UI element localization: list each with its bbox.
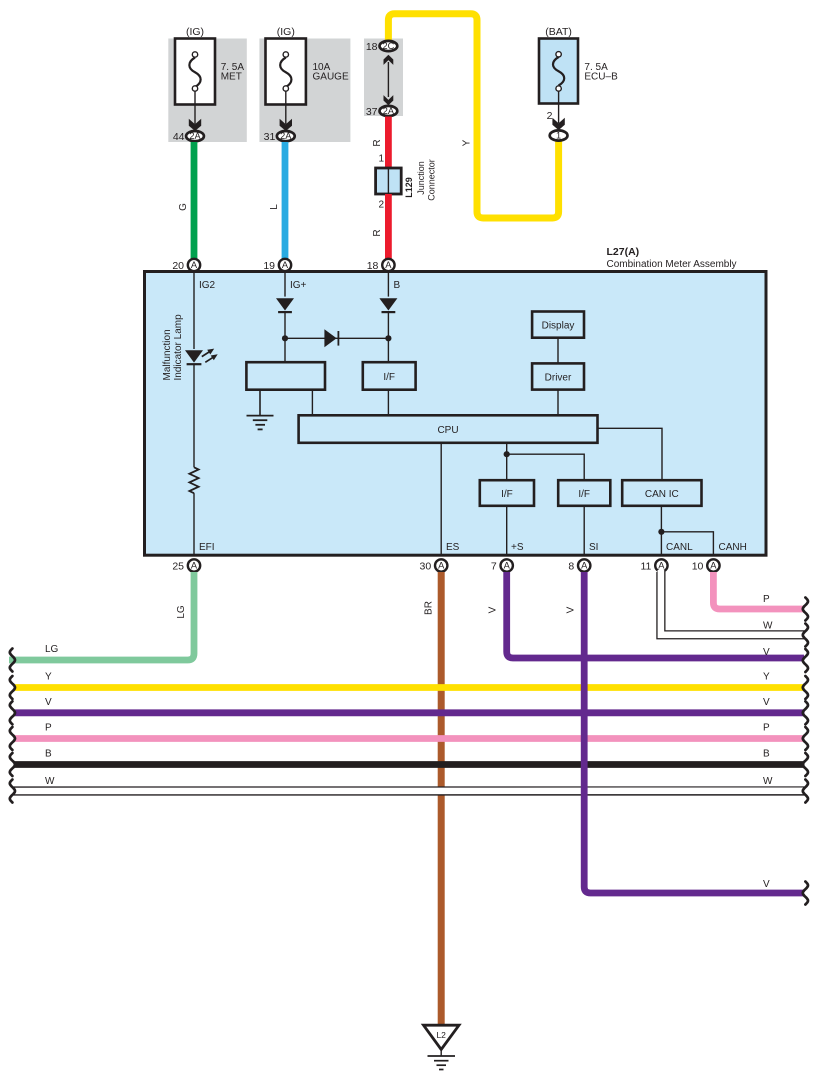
- break symbol left Y: [10, 676, 15, 699]
- svg-text:IG+: IG+: [290, 280, 307, 291]
- wire LED to resistor: [193, 364, 195, 467]
- svg-text:P: P: [763, 594, 770, 605]
- double arrow between 2C and 2A: [384, 55, 394, 106]
- pin 25 connector A bottom: [188, 559, 200, 571]
- svg-text:BR: BR: [424, 601, 435, 615]
- resistor: [189, 467, 198, 493]
- svg-text:18: 18: [367, 260, 379, 272]
- CPU box: [299, 415, 598, 443]
- svg-text:IG2: IG2: [199, 280, 216, 291]
- svg-text:25: 25: [172, 560, 184, 572]
- svg-text:A: A: [191, 561, 198, 571]
- pin 7 connector A bottom: [501, 559, 513, 571]
- svg-text:A: A: [658, 561, 665, 571]
- svg-text:18: 18: [366, 41, 378, 53]
- svg-text:L2: L2: [436, 1030, 446, 1040]
- I/F box (B input): [363, 362, 416, 390]
- svg-text:Y: Y: [763, 672, 770, 683]
- ground (internal): [247, 416, 274, 430]
- svg-text:MET: MET: [221, 72, 242, 83]
- svg-text:L: L: [269, 204, 280, 210]
- break symbol right V: [803, 649, 808, 672]
- svg-text:LG: LG: [45, 644, 59, 655]
- pin 19 connector A top: [279, 259, 291, 271]
- svg-text:V: V: [763, 879, 770, 890]
- break symbol right P: [803, 727, 808, 750]
- bus wire P pink: [14, 735, 805, 742]
- combination meter assembly box L27(A): [145, 272, 767, 556]
- junction dot B: [385, 335, 391, 341]
- wire Display to Driver: [557, 338, 559, 364]
- wire F2 to connector: [285, 91, 287, 124]
- svg-text:I/F: I/F: [383, 372, 395, 383]
- Display box: [532, 312, 584, 338]
- wire W white from pin 11 CANL: [661, 570, 805, 635]
- wire CAN IC to CANL: [660, 506, 662, 554]
- wire box to CPU: [311, 390, 313, 416]
- pin 30 connector A bottom: [435, 559, 447, 571]
- svg-text:CPU: CPU: [437, 425, 458, 436]
- svg-text:ECU–B: ECU–B: [584, 72, 618, 83]
- svg-text:R: R: [372, 139, 383, 146]
- svg-text:EFI: EFI: [199, 542, 215, 553]
- wire LG from pin 25: [9, 572, 194, 660]
- svg-text:SI: SI: [589, 542, 598, 553]
- svg-text:7: 7: [491, 560, 497, 572]
- bus wire B black: [14, 761, 805, 768]
- svg-text:V: V: [566, 606, 577, 613]
- svg-text:20: 20: [172, 260, 184, 272]
- break symbol right W: [803, 780, 808, 803]
- svg-text:L129: L129: [404, 177, 414, 198]
- svg-text:2A: 2A: [189, 131, 201, 141]
- svg-text:V: V: [45, 697, 52, 708]
- LED malfunction indicator lamp: [185, 349, 218, 365]
- wire I/F2 to SI pin: [583, 506, 585, 554]
- svg-text:B: B: [394, 280, 401, 291]
- svg-text:V: V: [763, 647, 770, 658]
- value label 10A GAUGE: [313, 62, 349, 83]
- svg-text:Junction: Junction: [416, 161, 426, 195]
- wire CANL to CANH: [661, 532, 713, 554]
- label Malfunction Indicator Lamp: [162, 314, 184, 381]
- wire box to ground: [259, 390, 261, 416]
- svg-text:2A: 2A: [383, 106, 395, 116]
- value label 7.5A ECU-B: [584, 62, 618, 83]
- diode D3 (crossover): [324, 329, 338, 347]
- regulator box (unlabeled): [246, 362, 325, 390]
- break symbol left V: [10, 701, 15, 724]
- wire yellow Y from 2C to junction 1: [388, 14, 558, 218]
- wire resistor to pin EFI: [193, 493, 195, 554]
- arrow into connector 2A pin 44: [189, 119, 201, 131]
- svg-text:A: A: [581, 561, 588, 571]
- fuse block F1 background: [168, 39, 247, 143]
- bus wire W white: [14, 786, 805, 795]
- wire F1 to connector: [194, 91, 196, 124]
- connector oval 2A pin 37: [380, 106, 398, 116]
- break symbol right W: [803, 624, 808, 647]
- svg-text:P: P: [763, 723, 770, 734]
- pin 8 connector A bottom: [578, 559, 590, 571]
- svg-text:A: A: [710, 561, 717, 571]
- svg-text:W: W: [763, 776, 773, 787]
- wire CPU to ES: [440, 443, 442, 554]
- svg-text:V: V: [763, 697, 770, 708]
- value label 7.5A MET: [221, 62, 245, 83]
- svg-text:Driver: Driver: [545, 373, 572, 384]
- svg-text:ES: ES: [446, 542, 460, 553]
- svg-text:2: 2: [547, 110, 553, 122]
- break symbol right B: [803, 753, 808, 776]
- arrow into connector 2A pin 31: [280, 119, 292, 131]
- wire F3 to connector 1: [558, 91, 560, 123]
- svg-text:10: 10: [692, 560, 704, 572]
- fuse F2 10A GAUGE: [266, 39, 306, 105]
- wire G green pin44 to pin20: [191, 142, 198, 259]
- svg-text:(IG): (IG): [277, 26, 295, 38]
- svg-text:LG: LG: [176, 605, 187, 619]
- svg-text:2A: 2A: [280, 131, 292, 141]
- fuse block F2 background: [259, 39, 350, 143]
- wire P pink from pin 10 CANH: [713, 572, 804, 609]
- svg-text:I/F: I/F: [578, 489, 590, 500]
- Driver box: [532, 363, 584, 389]
- wire B I/F to CPU: [387, 390, 389, 416]
- svg-text:B: B: [45, 749, 52, 760]
- break symbol right P: [803, 598, 808, 621]
- svg-text:+S: +S: [511, 542, 524, 553]
- svg-text:44: 44: [173, 131, 185, 143]
- wire CPU to I/F1: [506, 443, 508, 480]
- svg-text:Display: Display: [542, 321, 575, 332]
- wire cross diode horizontal: [285, 337, 388, 339]
- wire D1 to node: [284, 312, 286, 362]
- svg-text:CANH: CANH: [719, 542, 747, 553]
- svg-text:A: A: [191, 260, 198, 270]
- svg-text:A: A: [438, 561, 445, 571]
- connector block 2C-2A background: [364, 39, 403, 117]
- svg-text:L27(A): L27(A): [607, 246, 640, 258]
- svg-text:G: G: [178, 203, 189, 211]
- pin 11 connector A bottom: [655, 559, 667, 571]
- svg-text:Y: Y: [462, 139, 473, 146]
- break symbol right V: [803, 882, 808, 905]
- label L27(A) Combination Meter Assembly: [607, 246, 737, 270]
- connector oval 2C pin 18: [380, 41, 398, 51]
- wire IG+ vertical: [284, 273, 286, 297]
- wire Driver to CPU: [557, 390, 559, 416]
- ground L2: [424, 1025, 460, 1069]
- svg-text:P: P: [45, 723, 52, 734]
- wire R red lower segment: [385, 194, 392, 259]
- svg-text:A: A: [282, 260, 289, 270]
- wire BR brown from pin 30: [438, 572, 445, 1025]
- connector oval 2A pin 44: [186, 131, 204, 141]
- svg-text:(IG): (IG): [186, 26, 204, 38]
- fuse F1 7.5A MET: [175, 39, 215, 105]
- wire CPU to CAN IC: [598, 428, 663, 480]
- svg-text:W: W: [763, 621, 773, 632]
- wire branch to I/F2: [507, 454, 585, 480]
- svg-text:GAUGE: GAUGE: [313, 72, 349, 83]
- svg-text:B: B: [763, 749, 770, 760]
- svg-text:1: 1: [378, 154, 384, 165]
- break symbol left W: [10, 780, 15, 803]
- wire B vertical: [387, 273, 389, 297]
- break symbol right V: [803, 701, 808, 724]
- svg-text:(BAT): (BAT): [545, 26, 572, 38]
- diode D1 (IG+): [276, 298, 294, 312]
- svg-text:30: 30: [420, 560, 432, 572]
- svg-text:37: 37: [366, 106, 378, 118]
- svg-text:Y: Y: [45, 672, 52, 683]
- wire IG2 vertical: [193, 273, 195, 349]
- svg-text:A: A: [504, 561, 511, 571]
- svg-text:19: 19: [263, 260, 275, 272]
- break symbol left B: [10, 753, 15, 776]
- svg-text:Indicator Lamp: Indicator Lamp: [173, 314, 184, 381]
- junction dot +S branch: [504, 451, 510, 457]
- svg-text:Connector: Connector: [427, 159, 437, 201]
- wire V from pin 8 SI: [584, 572, 804, 893]
- svg-text:Combination Meter Assembly: Combination Meter Assembly: [607, 259, 737, 270]
- svg-text:R: R: [372, 229, 383, 236]
- CAN IC box: [622, 480, 701, 506]
- junction connector L129: [376, 168, 402, 194]
- svg-text:2C: 2C: [383, 41, 395, 51]
- svg-text:CANL: CANL: [666, 542, 693, 553]
- svg-text:Malfunction: Malfunction: [162, 329, 173, 380]
- wire I/F1 to +S pin: [506, 506, 508, 554]
- break symbol left P: [10, 727, 15, 750]
- I/F box 1 (+S): [480, 480, 534, 506]
- pin 20 connector A top: [188, 259, 200, 271]
- wire D2 to I/F: [387, 312, 389, 362]
- break symbol left LG: [10, 649, 15, 672]
- svg-text:2: 2: [378, 200, 384, 211]
- connector oval 1: [550, 130, 568, 140]
- svg-text:31: 31: [264, 131, 276, 143]
- fuse F3 7.5A ECU-B: [539, 39, 578, 104]
- svg-text:8: 8: [568, 560, 574, 572]
- junction dot CANL: [658, 529, 664, 535]
- svg-text:11: 11: [640, 560, 651, 572]
- break symbol right Y: [803, 676, 808, 699]
- junction dot IG+: [282, 335, 288, 341]
- wire L blue pin31 to pin19: [282, 142, 289, 259]
- bus wire Y yellow: [14, 684, 805, 691]
- pin 10 connector A bottom: [707, 559, 719, 571]
- wire V from pin 7 +S: [507, 572, 804, 658]
- label L129 Junction Connector: [404, 159, 437, 201]
- svg-text:CAN IC: CAN IC: [645, 489, 679, 500]
- wire R red upper segment: [385, 117, 392, 169]
- svg-text:I/F: I/F: [501, 489, 513, 500]
- diode D2 (B): [379, 298, 397, 312]
- connector oval 2A pin 31: [277, 131, 295, 141]
- svg-text:V: V: [488, 606, 499, 613]
- svg-text:W: W: [45, 776, 55, 787]
- bus wire V violet: [14, 709, 805, 716]
- arrow into connector 1: [552, 118, 564, 130]
- svg-text:A: A: [385, 260, 392, 270]
- svg-text:1: 1: [556, 131, 561, 141]
- I/F box 2 (SI): [558, 480, 610, 506]
- pin 18 connector A top: [382, 259, 394, 271]
